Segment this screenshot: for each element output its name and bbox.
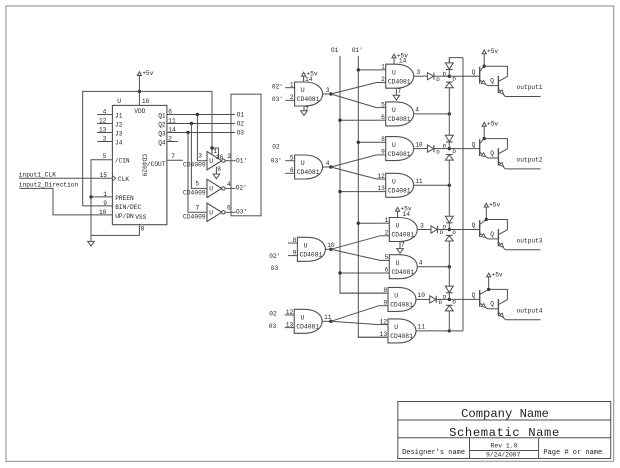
svg-text:12: 12: [380, 318, 388, 325]
wire clamp node to Q3 base: [449, 222, 479, 229]
U3a output pin 3 wire: [418, 222, 431, 229]
junction clamp node channel 3: [448, 228, 451, 231]
U2a power pins 1 and 16 bracket: [212, 148, 224, 161]
svg-text:8: 8: [381, 136, 385, 143]
wire L3 output to U3b pin 5: [331, 249, 380, 260]
svg-text:03': 03': [271, 158, 282, 165]
junction bus at U3a pin 1: [357, 222, 360, 225]
svg-text:U: U: [392, 142, 396, 149]
wire clamp chain ch3-ch4: [448, 241, 450, 286]
wire L4 output to U4a pin 9: [331, 306, 379, 322]
svg-text:12: 12: [377, 173, 385, 180]
svg-text:8: 8: [383, 287, 387, 294]
wire Q3 to port O3: [167, 132, 235, 134]
svg-text:U: U: [392, 179, 396, 186]
wire L3 output to U3a pin 2: [331, 236, 380, 250]
svg-text:4: 4: [227, 181, 231, 188]
svg-text:O3: O3: [237, 129, 245, 136]
U3b output pin 4 wire: [418, 260, 450, 267]
power +5v at Q1 collector: [482, 48, 498, 66]
svg-text:D: D: [443, 143, 447, 150]
svg-text:D: D: [436, 76, 440, 83]
svg-text:1: 1: [290, 82, 294, 89]
ground at U1a pin 7: [393, 88, 401, 100]
U2b output pin 11 wire: [414, 178, 449, 185]
svg-text:CD4081: CD4081: [297, 169, 320, 176]
wire input2_Direction to pin 10 UP/DN: [20, 188, 113, 215]
power +5v at U1: [137, 70, 153, 92]
svg-text:6: 6: [381, 114, 385, 121]
svg-text:Q: Q: [490, 78, 494, 85]
svg-text:U: U: [301, 160, 305, 167]
U1 vertical name CD4029: [140, 154, 147, 177]
U1 pin 13 J3 stub: [97, 127, 123, 138]
wire Q4 collector rail: [489, 289, 508, 304]
diode D clamp lower channel 2: [445, 148, 456, 160]
wire Q2 collector rail: [484, 139, 507, 154]
net label 02' at L1: [272, 84, 283, 91]
diode D series channel 2: [427, 145, 449, 155]
svg-text:Q: Q: [472, 141, 476, 148]
U2a output pin 10 wire: [414, 141, 427, 148]
wire bus to U4a pin 8: [340, 292, 379, 294]
L2 output stub pin 4: [323, 160, 331, 167]
power +5v at Q2 collector: [482, 121, 498, 139]
wire clamp node to Q4 base: [449, 292, 479, 299]
svg-text:+5v: +5v: [487, 121, 498, 128]
U1 pin 15 CLK name and clock triangle: [100, 172, 130, 183]
wire +5v rail drop to U2 power pins: [211, 91, 213, 148]
port O3-bar label: [236, 209, 247, 216]
wire clamp node to Q1 base: [449, 69, 479, 76]
net output1 label: [517, 84, 543, 91]
port O3 label: [237, 129, 245, 136]
svg-text:U: U: [304, 243, 308, 250]
counter U1 CD4029 body: [112, 98, 166, 225]
svg-text:Q2: Q2: [158, 121, 166, 128]
svg-text:input1_CLK: input1_CLK: [19, 172, 56, 179]
svg-text:13: 13: [377, 185, 385, 192]
svg-text:02': 02': [269, 253, 280, 260]
wire O1-bar bus vertical: [358, 56, 386, 337]
svg-text:2: 2: [381, 76, 385, 83]
junction Q1 tap: [196, 113, 199, 116]
svg-text:5: 5: [195, 180, 199, 187]
svg-text:PREEN: PREEN: [115, 195, 134, 202]
junction L1 output: [329, 92, 332, 95]
transistor Q4 first NPN: [480, 289, 499, 308]
U1b input stubs pins 5,6: [377, 101, 386, 120]
L2 input stubs and pin labels 5,6: [285, 155, 294, 175]
svg-text:Q1: Q1: [158, 112, 166, 119]
svg-text:7: 7: [171, 153, 175, 160]
junction bus at U1a pin 1: [357, 68, 360, 71]
ground at L1 pin 7: [301, 106, 309, 116]
U1 pin 11 label: [168, 118, 176, 125]
wire Q2 to port O2: [167, 123, 235, 125]
svg-text:J3: J3: [115, 130, 123, 137]
svg-text:12: 12: [99, 118, 107, 125]
diode D series channel 4: [430, 296, 450, 306]
svg-text:13: 13: [99, 127, 107, 134]
junction clamp node channel 4: [448, 298, 451, 301]
inverter U2a CD4009: [183, 152, 236, 170]
svg-text:9/24/2007: 9/24/2007: [486, 451, 521, 458]
U3a input stubs pins 1,2: [380, 217, 389, 236]
svg-text:13: 13: [380, 331, 388, 338]
U1 pin 2 Q4 stub: [158, 136, 177, 147]
svg-text:11: 11: [168, 118, 176, 125]
junction L2 output: [329, 165, 332, 168]
svg-text:3: 3: [420, 222, 424, 229]
L1 output stub pin 3: [323, 87, 331, 94]
AND gate U1a CD4081 top: [386, 64, 414, 88]
junction PREEN ground tie: [89, 195, 92, 198]
title schematic name: [449, 426, 560, 440]
svg-text:CD4009: CD4009: [183, 213, 206, 220]
svg-text:O1: O1: [331, 47, 339, 54]
power +5v at U3a pin 14: [396, 206, 412, 218]
title rev: [491, 443, 518, 450]
svg-text:U: U: [117, 98, 121, 105]
net O1 bus label: [331, 47, 339, 54]
junction U1b output at clamp vertical: [448, 112, 451, 115]
svg-text:O2': O2': [236, 185, 247, 192]
transistor Q1 second NPN: [490, 76, 505, 97]
svg-text:9: 9: [293, 249, 297, 256]
svg-text:CD4081: CD4081: [297, 96, 320, 103]
junction Q1 collector: [483, 65, 486, 68]
U4b input stubs pins 12,13: [379, 318, 388, 337]
svg-text:/CIN: /CIN: [115, 158, 130, 165]
net label 03' at L1: [272, 96, 283, 103]
junction Q3 collector: [485, 218, 488, 221]
wire clamp chain ch2-ch3: [448, 160, 450, 216]
svg-text:03: 03: [269, 323, 277, 330]
svg-text:O1': O1': [352, 47, 363, 54]
svg-text:10: 10: [418, 292, 426, 299]
svg-text:7: 7: [196, 204, 200, 211]
svg-text:8: 8: [293, 237, 297, 244]
svg-text:Rev 1.0: Rev 1.0: [491, 443, 518, 450]
net label 03 at L4: [269, 323, 277, 330]
svg-text:U: U: [209, 158, 213, 165]
junction L4 output: [329, 320, 332, 323]
junction bus at U1b pin 6: [338, 119, 341, 122]
svg-text:O1': O1': [236, 157, 247, 164]
junction U3b output at clamp vertical: [448, 265, 451, 268]
diode D clamp upper channel 3: [443, 216, 454, 230]
wire output4: [505, 319, 540, 321]
svg-text:14: 14: [305, 76, 313, 83]
svg-text:8: 8: [217, 166, 221, 173]
port O2 label: [237, 120, 245, 127]
svg-text:14: 14: [399, 58, 407, 65]
U1 pin 1 PREEN name: [103, 191, 134, 202]
net output4 label: [517, 307, 543, 314]
svg-text:3: 3: [198, 152, 202, 159]
title page cell: [543, 449, 602, 457]
svg-text:U: U: [209, 186, 213, 193]
svg-text:8: 8: [141, 226, 145, 233]
inverter U2c CD4009: [183, 203, 236, 221]
wire ground run below U1: [91, 197, 145, 236]
svg-text:Q: Q: [472, 292, 476, 299]
U4b output pin 11 wire: [417, 324, 450, 331]
AND gate U4b CD4081 bottom: [388, 319, 416, 343]
svg-text:9: 9: [381, 149, 385, 156]
U1 pin 9 BIN/DEC name: [103, 200, 141, 211]
wire output1: [505, 96, 540, 98]
svg-text:03: 03: [271, 265, 279, 272]
wire bus to U1b pin 6: [340, 119, 377, 121]
U1 pin 4 J1 stub: [97, 109, 123, 120]
svg-text:10: 10: [415, 141, 423, 148]
svg-text:11: 11: [418, 324, 426, 331]
svg-text:Schematic Name: Schematic Name: [449, 426, 560, 440]
port box: [231, 94, 261, 216]
svg-text:03': 03': [272, 96, 283, 103]
title date: [486, 451, 521, 458]
wire output2: [505, 168, 540, 170]
U1 pin 10 UP/DN name: [99, 209, 134, 220]
svg-text:12: 12: [286, 309, 294, 316]
wire Q1 collector rail: [484, 66, 507, 81]
AND gate U3b CD4081 bottom: [389, 255, 417, 279]
svg-text:02: 02: [269, 311, 277, 318]
U4a input stubs pins 8,9: [379, 287, 388, 306]
svg-text:4: 4: [419, 260, 423, 267]
U1 pin 7 /COUT name and stub: [147, 153, 183, 168]
L3 input stubs and pin labels 8,9: [288, 237, 297, 257]
junction L3 output: [329, 248, 332, 251]
svg-text:16: 16: [216, 154, 224, 161]
svg-text:output1: output1: [517, 84, 543, 91]
svg-text:UP/DN: UP/DN: [115, 213, 134, 220]
U1a input stubs pins 1,2: [377, 64, 386, 83]
wire clamp chain ch1 top loop: [449, 58, 463, 63]
U1 pin 3 J4 stub: [97, 136, 123, 147]
svg-text:D: D: [443, 224, 447, 231]
wire L2 output to U2a pin 9: [331, 155, 377, 167]
L1 input stubs and pin labels 1,2: [285, 82, 294, 102]
junction Q3 tap: [186, 131, 189, 134]
AND gate U2a CD4081 top: [386, 137, 414, 161]
wire L1 output to U1a pin 2: [331, 83, 377, 95]
ground at U3a pin 7: [397, 241, 405, 253]
svg-text:U: U: [394, 293, 398, 300]
junction U4b output at clamp vertical: [448, 329, 451, 332]
svg-text:16: 16: [142, 98, 150, 105]
junction bus at U3b pin 6: [338, 271, 341, 274]
svg-text:13: 13: [286, 321, 294, 328]
svg-text:U: U: [392, 69, 396, 76]
wire bus to U3a pin 1: [358, 222, 380, 224]
svg-text:CD4081: CD4081: [388, 78, 411, 85]
svg-text:D: D: [443, 294, 447, 301]
svg-text:VSS: VSS: [135, 214, 146, 221]
power +5v at Q3 collector: [484, 201, 500, 219]
wire bus to U4b pin 13: [358, 336, 379, 338]
svg-text:CD4081: CD4081: [388, 151, 411, 158]
net O1-bar bus label: [352, 47, 363, 54]
AND gate U1b CD4081 bottom: [386, 102, 414, 126]
svg-text:Q: Q: [472, 69, 476, 76]
junction Q4 collector: [487, 288, 490, 291]
svg-text:CD4009: CD4009: [183, 161, 206, 168]
diode D clamp upper channel 4: [443, 286, 454, 300]
U2b input stubs pins 12,13: [377, 173, 386, 192]
svg-text:U: U: [301, 87, 305, 94]
svg-text:5: 5: [385, 254, 389, 261]
svg-text:U: U: [396, 260, 400, 267]
transistor Q1 first NPN: [480, 66, 499, 85]
svg-text:CD4081: CD4081: [388, 188, 411, 195]
title company name: [461, 407, 549, 421]
net label 03' at L2: [271, 158, 282, 165]
svg-text:O2: O2: [237, 120, 245, 127]
power +5v at Q4 collector: [487, 271, 503, 289]
transistor Q3 second NPN: [490, 229, 505, 250]
port O2-bar label: [236, 185, 247, 192]
svg-text:02': 02': [272, 84, 283, 91]
svg-text:CD4081: CD4081: [392, 232, 415, 239]
wire Q3 collector rail: [486, 220, 507, 235]
svg-text:Q3: Q3: [158, 130, 166, 137]
L4 input stubs and pin labels 12,13: [285, 309, 294, 329]
power +5v at U1a pin 14: [392, 52, 408, 64]
svg-text:O3': O3': [236, 209, 247, 216]
svg-text:5: 5: [103, 153, 107, 160]
junction Q2 collector: [483, 137, 486, 140]
wire Q2 tap to U2b input: [191, 124, 207, 189]
U1a output pin 3 wire: [414, 69, 427, 76]
svg-text:+5v: +5v: [492, 271, 503, 278]
port O1 label: [237, 111, 245, 118]
diode D clamp lower channel 3: [445, 229, 456, 241]
junction +5v rail at U1 VDD: [138, 90, 141, 93]
svg-text:7: 7: [305, 106, 309, 113]
net label 02' at L3: [269, 253, 280, 260]
svg-text:5: 5: [381, 101, 385, 108]
title block: [398, 402, 611, 459]
svg-text:4: 4: [103, 109, 107, 116]
wire input1_CLK to pin 15: [19, 177, 112, 179]
wire Q3 tap to U2c input: [188, 133, 207, 213]
svg-text:+5v: +5v: [142, 70, 153, 77]
diode D clamp lower channel 1: [445, 76, 456, 88]
title designer cell: [402, 449, 465, 457]
svg-text:CD4081: CD4081: [300, 252, 323, 259]
diode D series channel 3: [431, 226, 449, 236]
wire L2 output to U2b pin 12: [331, 167, 377, 179]
U1 pin 12 J2 stub: [97, 118, 123, 129]
wire clamp chain ch1-ch2: [448, 88, 450, 136]
diode D clamp upper channel 2: [443, 135, 454, 149]
svg-text:3: 3: [417, 69, 421, 76]
svg-text:1: 1: [381, 64, 385, 71]
svg-text:output2: output2: [517, 157, 543, 164]
wire L4 output to U4b pin 12: [331, 321, 379, 324]
svg-text:U: U: [394, 324, 398, 331]
wire return vertical: [462, 58, 464, 331]
transistor Q2 first NPN: [480, 139, 499, 158]
svg-text:6: 6: [290, 167, 294, 174]
AND gate L1 CD4081: [295, 82, 323, 106]
svg-text:Company Name: Company Name: [461, 407, 549, 421]
svg-text:4: 4: [326, 160, 330, 167]
net label 02 at L4: [269, 311, 277, 318]
svg-text:CD4081: CD4081: [388, 116, 411, 123]
wire bus to U2b pin 13: [340, 191, 377, 193]
svg-text:14: 14: [403, 211, 411, 218]
net output2 label: [517, 157, 543, 164]
U4a output pin 10 wire: [417, 292, 430, 299]
transistor Q2 second NPN: [490, 148, 505, 169]
svg-text:2: 2: [385, 229, 389, 236]
svg-text:CD4081: CD4081: [392, 269, 415, 276]
svg-text:6: 6: [227, 205, 231, 212]
svg-text:J2: J2: [115, 121, 123, 128]
inverter U2b CD4009: [183, 179, 236, 197]
svg-text:Q: Q: [490, 231, 494, 238]
wire output3: [505, 249, 540, 251]
wire bus to U2a pin 8: [358, 141, 376, 143]
junction bus at U2b pin 13: [338, 190, 341, 193]
svg-text:Page # or name: Page # or name: [543, 449, 602, 457]
wire bus to U1a pin 1: [358, 69, 376, 71]
svg-text:U: U: [301, 315, 305, 322]
svg-text:Q4: Q4: [158, 139, 166, 146]
junction bus at U2a pin 8: [357, 141, 360, 144]
AND gate L3 CD4081: [297, 237, 325, 261]
svg-text:11: 11: [415, 178, 423, 185]
svg-text:Designer's name: Designer's name: [402, 449, 465, 457]
junction clamp node channel 1: [448, 75, 451, 78]
junction U2a power: [210, 146, 213, 149]
svg-text:9: 9: [383, 299, 387, 306]
transistor Q3 first NPN: [480, 220, 499, 239]
net label 03 at L3: [271, 265, 279, 272]
wire O1 bus vertical: [340, 56, 386, 293]
svg-text:VDD: VDD: [134, 108, 145, 115]
svg-text:+5v: +5v: [487, 48, 498, 55]
svg-text:J4: J4: [115, 139, 123, 146]
junction clamp node channel 2: [448, 147, 451, 150]
svg-text:CD4081: CD4081: [390, 302, 413, 309]
svg-text:BIN/DEC: BIN/DEC: [115, 204, 141, 211]
wire clamp node to Q2 base: [449, 141, 479, 148]
svg-text:14: 14: [168, 127, 176, 134]
wire bus to U3b pin 6: [340, 272, 380, 274]
junction Q2 tap: [190, 122, 193, 125]
svg-text:6: 6: [385, 267, 389, 274]
svg-text:CLK: CLK: [118, 176, 129, 183]
wire /CIN to ground rail: [91, 160, 112, 197]
svg-text:output4: output4: [517, 307, 543, 314]
wire Q1 tap to U2a input: [197, 115, 207, 161]
svg-text:D: D: [443, 70, 447, 77]
svg-text:CD4081: CD4081: [390, 333, 413, 340]
diode D clamp upper channel 1: [443, 59, 454, 77]
AND gate L4 CD4081: [294, 309, 322, 333]
U1 pin 14 label: [168, 127, 176, 134]
net input2_Direction label: [19, 181, 79, 188]
svg-text:/COUT: /COUT: [147, 161, 166, 168]
U2a input stubs pins 8,9: [377, 136, 386, 155]
ground below U1: [88, 235, 95, 246]
wire Q1 to port O1: [167, 114, 235, 116]
